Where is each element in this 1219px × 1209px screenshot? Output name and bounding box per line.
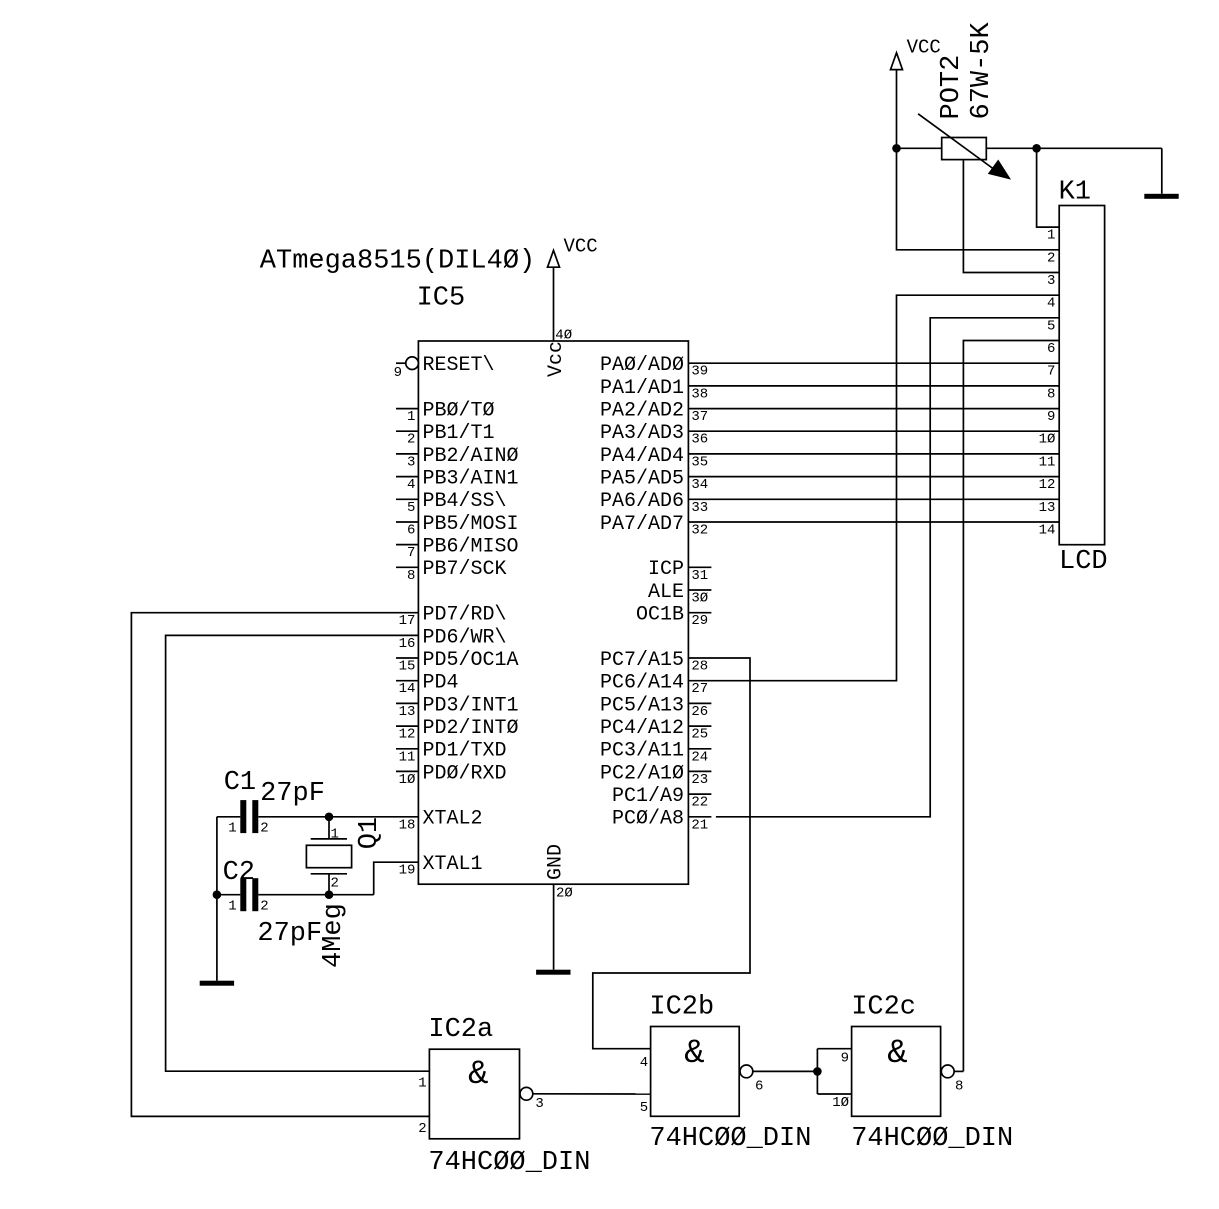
pin PC2/A10 (23) stub	[688, 770, 711, 772]
svg-text:POT2: POT2	[937, 55, 967, 120]
svg-text:6: 6	[407, 523, 415, 539]
svg-text:32: 32	[691, 523, 708, 539]
svg-text:2: 2	[407, 432, 415, 448]
svg-text:PA6/AD6: PA6/AD6	[600, 490, 684, 513]
wire jog to IC2c pin 10	[817, 1093, 851, 1095]
svg-text:7: 7	[407, 545, 415, 561]
svg-text:28: 28	[691, 659, 708, 675]
svg-text:74HCØØ_DIN: 74HCØØ_DIN	[851, 1124, 1013, 1154]
ground symbol at IC pin 20	[536, 970, 570, 975]
svg-text:74HCØØ_DIN: 74HCØØ_DIN	[649, 1124, 811, 1154]
svg-text:PCØ/A8: PCØ/A8	[612, 808, 684, 831]
wire POT row right segment to ground	[986, 147, 1162, 149]
wire VCC vertical to K1 pin 2	[897, 148, 1060, 250]
svg-text:74HCØØ_DIN: 74HCØØ_DIN	[428, 1148, 590, 1178]
svg-text:23: 23	[691, 772, 708, 788]
wire left vertical to ground	[216, 817, 218, 981]
crystal Q1	[328, 817, 330, 839]
pin PA7/AD7 (32) wire to K1 pin 14	[688, 521, 1059, 523]
wire PC7/A15 to IC2b pin 4	[593, 658, 750, 1049]
svg-text:27: 27	[691, 681, 708, 697]
svg-text:1: 1	[407, 409, 415, 425]
svg-text:PB1/T1: PB1/T1	[423, 422, 495, 445]
svg-text:3: 3	[1047, 273, 1055, 289]
svg-text:&: &	[684, 1035, 704, 1073]
svg-text:OC1B: OC1B	[636, 604, 684, 627]
pin PA0/AD0 (39) wire to K1 pin 7	[688, 362, 1059, 364]
svg-text:12: 12	[399, 727, 416, 743]
svg-text:24: 24	[691, 749, 708, 765]
svg-text:3: 3	[535, 1096, 543, 1112]
pin PD4 (14) stub	[396, 680, 418, 682]
svg-text:4: 4	[1047, 296, 1055, 312]
pin PC0/A8 (21) stub	[688, 816, 711, 818]
svg-text:2: 2	[418, 1121, 426, 1137]
wire POT row left segment	[897, 147, 942, 149]
pin ICP (31) stub	[688, 566, 711, 568]
svg-text:IC2c: IC2c	[851, 993, 916, 1023]
svg-text:11: 11	[399, 749, 416, 765]
svg-text:Q1: Q1	[355, 817, 385, 849]
svg-text:14: 14	[399, 681, 416, 697]
svg-text:PB7/SCK: PB7/SCK	[423, 558, 507, 581]
svg-text:1Ø: 1Ø	[832, 1095, 849, 1111]
svg-text:36: 36	[691, 432, 708, 448]
svg-text:27pF: 27pF	[257, 919, 322, 949]
svg-text:PD3/INT1: PD3/INT1	[423, 694, 519, 717]
svg-text:1: 1	[228, 821, 236, 837]
junction at Q1 pin 2	[325, 890, 334, 899]
svg-text:34: 34	[691, 477, 708, 493]
svg-text:11: 11	[1039, 454, 1056, 470]
svg-text:8: 8	[1047, 386, 1055, 402]
gate IC2c output bubble	[941, 1065, 954, 1078]
svg-text:3Ø: 3Ø	[691, 591, 708, 607]
svg-text:PB6/MISO: PB6/MISO	[423, 536, 519, 559]
pin PB6/MISO (7) stub	[396, 544, 418, 546]
wire XTAL2 net (C1 - Q1 pin1 - IC pin18)	[217, 816, 240, 818]
junction at C2 pin 1	[213, 890, 222, 899]
pin GND (20) wire to ground	[553, 884, 555, 970]
pin PA5/AD5 (34) wire to K1 pin 12	[688, 476, 1059, 478]
junction at IC2c input	[813, 1067, 822, 1076]
pin PD3/INT1 (13) stub	[396, 702, 418, 704]
svg-text:9: 9	[841, 1051, 849, 1067]
svg-text:2: 2	[331, 876, 339, 892]
svg-text:PD1/TXD: PD1/TXD	[423, 740, 507, 763]
gate IC2a (74HC00) body	[429, 1049, 519, 1139]
svg-text:9: 9	[394, 365, 402, 381]
svg-text:4: 4	[407, 477, 415, 493]
pin PB1/T1 (2) stub	[396, 430, 418, 432]
pin ALE (30) stub	[688, 589, 711, 591]
wire IC2b output (6) to IC2c pins 9/10	[753, 1070, 818, 1072]
svg-text:37: 37	[691, 409, 708, 425]
svg-text:PC1/A9: PC1/A9	[612, 785, 684, 808]
svg-text:14: 14	[1039, 523, 1056, 539]
svg-text:PD2/INTØ: PD2/INTØ	[423, 717, 519, 740]
svg-text:K1: K1	[1059, 178, 1091, 208]
svg-text:PC7/A15: PC7/A15	[600, 649, 684, 672]
svg-text:2: 2	[1047, 250, 1055, 266]
svg-text:IC5: IC5	[417, 284, 466, 314]
svg-text:PD5/OC1A: PD5/OC1A	[423, 649, 519, 672]
ground symbol top right	[1144, 194, 1178, 199]
svg-text:ATmega8515(DIL4Ø): ATmega8515(DIL4Ø)	[260, 247, 535, 277]
svg-text:VCC: VCC	[907, 36, 941, 58]
svg-text:PC2/A1Ø: PC2/A1Ø	[600, 762, 684, 785]
pin PD5/OC1A (15) stub	[396, 657, 418, 659]
pin PC5/A13 (26) stub	[688, 702, 711, 704]
svg-text:29: 29	[691, 613, 708, 629]
svg-text:PAØ/ADØ: PAØ/ADØ	[600, 354, 684, 377]
svg-text:PA5/AD5: PA5/AD5	[600, 468, 684, 491]
svg-text:IC2b: IC2b	[649, 993, 714, 1023]
junction at Q1 pin 1	[325, 813, 334, 822]
pin PA4/AD4 (35) wire to K1 pin 11	[688, 453, 1059, 455]
svg-text:PB5/MOSI: PB5/MOSI	[423, 513, 519, 536]
junction at VCC/POT	[892, 144, 901, 153]
svg-text:6: 6	[755, 1079, 763, 1095]
svg-text:5: 5	[640, 1100, 648, 1116]
svg-text:PC5/A13: PC5/A13	[600, 694, 684, 717]
svg-text:&: &	[887, 1035, 907, 1073]
svg-text:25: 25	[691, 727, 708, 743]
gate IC2b output bubble	[740, 1065, 753, 1078]
pin VCC (40) with supply arrow	[553, 267, 555, 341]
svg-text:PB3/AIN1: PB3/AIN1	[423, 468, 519, 491]
gate IC2a output bubble	[520, 1087, 533, 1100]
svg-text:PB4/SS\: PB4/SS\	[423, 490, 507, 513]
pin PC1/A9 (22) stub	[688, 793, 711, 795]
svg-text:1: 1	[418, 1076, 426, 1092]
svg-text:PDØ/RXD: PDØ/RXD	[423, 762, 507, 785]
svg-text:2: 2	[260, 899, 268, 915]
wire PC6/A14 to K1 pin 4	[688, 295, 1059, 681]
svg-text:VCC: VCC	[564, 236, 598, 258]
svg-text:16: 16	[399, 636, 416, 652]
pin PA1/AD1 (38) wire to K1 pin 8	[688, 385, 1059, 387]
svg-text:1: 1	[331, 827, 339, 843]
pin PB2/AIN0 (3) stub	[396, 453, 418, 455]
potentiometer POT2 arrow	[918, 114, 995, 170]
capacitor C2	[240, 878, 246, 911]
pin PB5/MOSI (6) stub	[396, 521, 418, 523]
svg-text:PD7/RD\: PD7/RD\	[423, 604, 507, 627]
svg-text:13: 13	[1039, 500, 1056, 516]
svg-text:2Ø: 2Ø	[556, 886, 573, 902]
svg-text:ALE: ALE	[648, 581, 684, 604]
wire XTAL1 net (C2 - Q1 pin2 - IC pin19)	[217, 894, 240, 896]
svg-text:35: 35	[691, 454, 708, 470]
svg-text:18: 18	[399, 817, 416, 833]
svg-text:8: 8	[955, 1079, 963, 1095]
svg-text:XTAL1: XTAL1	[423, 853, 483, 876]
wire IC2a output (3) to IC2b pin 5	[533, 1093, 651, 1095]
pin RESET\ (9) with inversion bubble	[396, 362, 406, 364]
svg-text:PA3/AD3: PA3/AD3	[600, 422, 684, 445]
pin PA6/AD6 (33) wire to K1 pin 13	[688, 498, 1059, 500]
pin PB3/AIN1 (4) stub	[396, 476, 418, 478]
connector K1 body	[1059, 206, 1104, 545]
svg-text:C2: C2	[223, 858, 255, 888]
svg-text:1Ø: 1Ø	[1039, 432, 1056, 448]
pin PB4/SS\ (5) stub	[396, 498, 418, 500]
ground symbol below C2	[200, 981, 234, 986]
svg-text:3: 3	[407, 454, 415, 470]
svg-text:PB2/AINØ: PB2/AINØ	[423, 445, 519, 468]
wire down to ground	[1161, 148, 1163, 194]
power VCC arrow (POT2 net)	[891, 53, 903, 70]
pin PD0/RXD (10) stub	[396, 770, 418, 772]
gate IC2c (74HC00) body	[852, 1027, 941, 1117]
svg-text:13: 13	[399, 704, 416, 720]
svg-text:27pF: 27pF	[260, 779, 325, 809]
wire POT2 wiper to K1 pin 3	[963, 160, 1059, 273]
svg-text:PC3/A11: PC3/A11	[600, 740, 684, 763]
svg-text:PC4/A12: PC4/A12	[600, 717, 684, 740]
wire to K1 pin 1	[1037, 148, 1060, 227]
svg-text:PD6/WR\: PD6/WR\	[423, 626, 507, 649]
pin PA3/AD3 (36) wire to K1 pin 10	[688, 430, 1059, 432]
svg-text:26: 26	[691, 704, 708, 720]
svg-text:9: 9	[1047, 409, 1055, 425]
pin PC3/A11 (24) stub	[688, 748, 711, 750]
svg-text:5: 5	[1047, 318, 1055, 334]
wire PD7/RD\ to IC2a pin 2	[131, 613, 429, 1117]
junction at K1 pin1 branch	[1032, 144, 1041, 153]
svg-text:1Ø: 1Ø	[399, 772, 416, 788]
svg-text:PA7/AD7: PA7/AD7	[600, 513, 684, 536]
svg-text:PA1/AD1: PA1/AD1	[600, 377, 684, 400]
svg-text:38: 38	[691, 386, 708, 402]
pin PD2/INT0 (12) stub	[396, 725, 418, 727]
gate IC2b (74HC00) body	[651, 1027, 740, 1117]
svg-text:1: 1	[228, 899, 236, 915]
svg-text:39: 39	[691, 364, 708, 380]
svg-text:4: 4	[640, 1055, 648, 1071]
wire IC2c output (8) to K1 pin 6	[954, 1070, 963, 1072]
svg-text:33: 33	[691, 500, 708, 516]
pin PD1/TXD (11) stub	[396, 748, 418, 750]
pin PA2/AD2 (37) wire to K1 pin 9	[688, 408, 1059, 410]
svg-text:ICP: ICP	[648, 558, 684, 581]
svg-text:GND: GND	[545, 844, 568, 880]
svg-text:8: 8	[407, 568, 415, 584]
wire PD6/WR\ to IC2a pin 1	[166, 635, 430, 1071]
capacitor C1	[240, 800, 246, 833]
svg-text:1: 1	[1047, 228, 1055, 244]
wire jog to IC2c pin 9	[817, 1048, 851, 1050]
svg-text:67W-5K: 67W-5K	[967, 21, 997, 119]
svg-text:PD4: PD4	[423, 672, 459, 695]
svg-text:12: 12	[1039, 477, 1056, 493]
svg-text:&: &	[468, 1056, 488, 1094]
svg-text:21: 21	[691, 817, 708, 833]
svg-text:RESET\: RESET\	[423, 354, 495, 377]
pin OC1B (29) stub	[688, 612, 711, 614]
potentiometer POT2 body	[942, 138, 987, 160]
svg-text:7: 7	[1047, 364, 1055, 380]
svg-text:31: 31	[691, 568, 708, 584]
svg-text:PBØ/TØ: PBØ/TØ	[423, 400, 495, 423]
svg-text:5: 5	[407, 500, 415, 516]
pin PB0/T0 (1) stub	[396, 408, 418, 410]
pin PC4/A12 (25) stub	[688, 725, 711, 727]
svg-text:PC6/A14: PC6/A14	[600, 672, 684, 695]
svg-text:LCD: LCD	[1059, 547, 1108, 577]
svg-text:PA4/AD4: PA4/AD4	[600, 445, 684, 468]
svg-text:PA2/AD2: PA2/AD2	[600, 400, 684, 423]
svg-text:17: 17	[399, 613, 416, 629]
svg-text:4Ø: 4Ø	[555, 327, 572, 343]
wire VCC down to POT row	[896, 70, 898, 149]
svg-text:22: 22	[691, 795, 708, 811]
svg-text:2: 2	[260, 821, 268, 837]
svg-text:15: 15	[399, 659, 416, 675]
IC IC5 ATmega8515 body	[418, 341, 688, 884]
wire PC0/A8 to K1 pin 5	[716, 318, 1060, 817]
svg-text:XTAL2: XTAL2	[423, 808, 483, 831]
svg-text:C1: C1	[224, 768, 256, 798]
svg-text:Vcc: Vcc	[545, 341, 568, 377]
svg-text:19: 19	[399, 863, 416, 879]
svg-text:4Meg: 4Meg	[319, 903, 349, 968]
pin PB7/SCK (8) stub	[396, 566, 418, 568]
svg-text:IC2a: IC2a	[428, 1015, 493, 1045]
svg-text:6: 6	[1047, 341, 1055, 357]
